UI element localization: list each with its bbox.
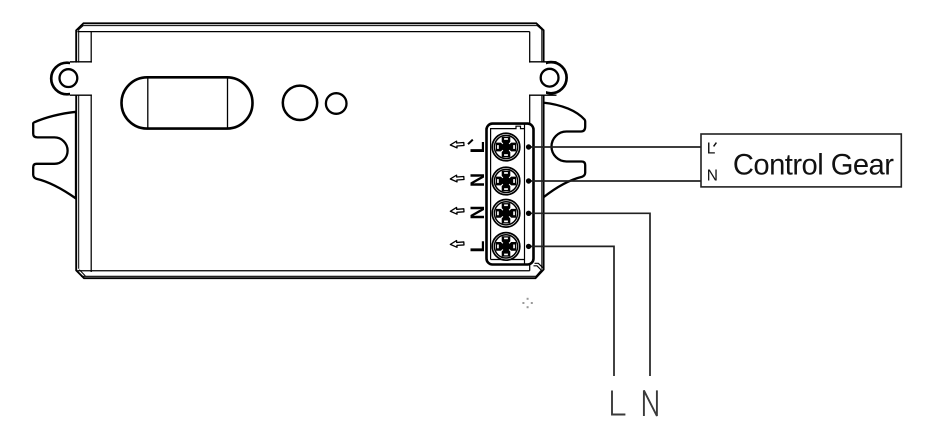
arrow marker row 1	[450, 141, 464, 149]
mains label N	[644, 390, 657, 416]
terminal block	[487, 124, 543, 270]
screw terminal N2	[492, 200, 520, 228]
screw terminal L'	[492, 133, 520, 161]
svg-text:N: N	[467, 205, 489, 219]
left mounting ear	[51, 62, 92, 95]
junction dot N1	[526, 178, 531, 183]
large circle button	[283, 86, 317, 120]
wire N to control gear	[529, 180, 701, 182]
junction dot L'	[526, 144, 531, 149]
arrow marker row 4	[450, 240, 464, 248]
wire N to mains	[529, 213, 650, 376]
wire L to mains	[529, 246, 614, 376]
body right rim line	[541, 28, 543, 269]
svg-text:N: N	[467, 173, 489, 187]
arrow marker row 3	[450, 207, 464, 215]
svg-text:N: N	[707, 168, 718, 185]
wire L' to control gear	[529, 146, 701, 148]
alignment marker	[522, 298, 532, 308]
corner rim chamfers	[79, 26, 542, 277]
device body outline	[76, 23, 543, 278]
mains label L	[612, 391, 625, 415]
junction dot N2	[526, 211, 531, 216]
junction dot L2	[526, 244, 531, 249]
right spring clip	[543, 103, 585, 198]
control gear box	[701, 134, 901, 187]
small circle button	[326, 93, 347, 114]
body top rim line	[80, 25, 540, 27]
terminal block base chamfer	[534, 263, 543, 270]
screw terminal L2	[492, 233, 520, 261]
arrow marker row 2	[450, 175, 464, 183]
svg-text:Control Gear: Control Gear	[733, 150, 894, 182]
body left rim line	[78, 28, 80, 269]
body inner panel line	[78, 32, 530, 272]
terminal label L' (rotated)	[467, 140, 489, 154]
pill-shaped slot	[122, 77, 253, 128]
svg-text:L: L	[707, 141, 716, 158]
svg-text:L: L	[467, 241, 489, 253]
left spring clip	[33, 112, 76, 199]
screw terminal N1	[492, 167, 520, 195]
body bottom rim line	[81, 275, 538, 277]
right mounting ear	[529, 62, 567, 95]
